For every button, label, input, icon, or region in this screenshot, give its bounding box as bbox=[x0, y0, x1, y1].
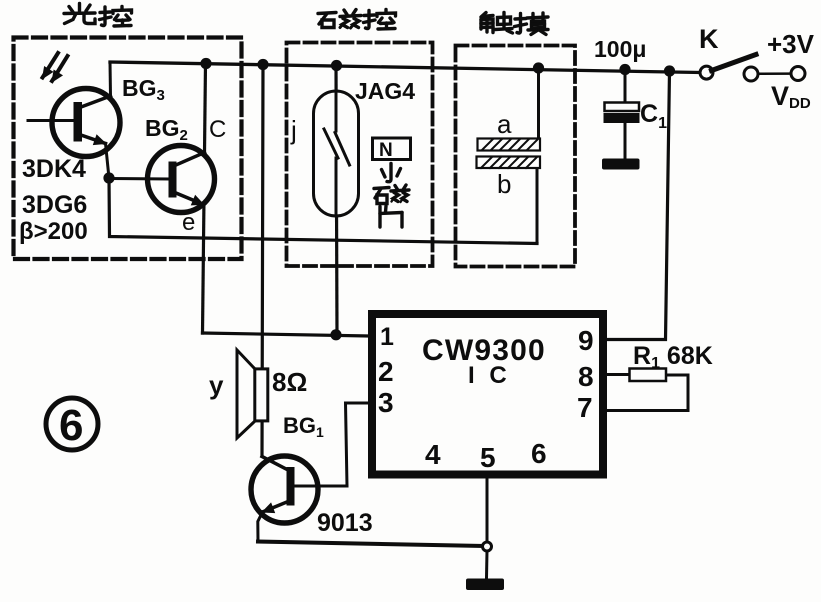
svg-text:9: 9 bbox=[578, 325, 594, 356]
label ci (magnet) bbox=[318, 10, 361, 29]
reed switch JAG4 capsule bbox=[314, 91, 359, 216]
wire reed switch branch from top rail down to pin1 node bbox=[336, 65, 337, 334]
svg-text:2: 2 bbox=[378, 356, 394, 387]
label kong (control) bbox=[100, 7, 132, 27]
svg-text:a: a bbox=[497, 109, 512, 139]
wire bottom rail (BG2 base node to touch plate b) bbox=[109, 178, 537, 244]
speaker y bbox=[237, 350, 268, 438]
svg-text:1: 1 bbox=[380, 323, 394, 351]
box magnetic-control dashed bbox=[287, 43, 433, 267]
wire C1 bottom lead to ground bbox=[624, 123, 627, 161]
touch plate a bbox=[478, 139, 541, 151]
label ci2 (magnet) bbox=[374, 185, 409, 204]
svg-text:+3V: +3V bbox=[767, 29, 815, 59]
svg-text:6: 6 bbox=[59, 401, 83, 450]
box light-control dashed bbox=[14, 38, 242, 260]
wire R1 to pin 7 bbox=[607, 375, 688, 411]
node dots on top rail bbox=[103, 58, 675, 341]
label xiao (small) bbox=[382, 164, 401, 182]
light arrows bbox=[43, 53, 68, 82]
svg-text:7: 7 bbox=[577, 392, 593, 423]
IC CW9300 box bbox=[372, 314, 603, 475]
transistor BG1 bbox=[251, 456, 347, 542]
figure number 6 circle bbox=[46, 398, 98, 450]
node pin1 junction bbox=[330, 329, 341, 340]
wire touch plate b down to bottom rail bbox=[536, 168, 539, 244]
svg-text:5: 5 bbox=[480, 442, 496, 473]
wire touch plate a feed bbox=[537, 68, 540, 139]
wire speaker branch from top rail down to BG1 collector bbox=[262, 64, 263, 456]
transistor BG2 bbox=[109, 146, 215, 213]
svg-text:3DK4: 3DK4 bbox=[22, 155, 86, 183]
svg-text:R1 68K: R1 68K bbox=[633, 342, 713, 372]
wire pin 8 lead bbox=[607, 373, 630, 376]
svg-text:e: e bbox=[182, 209, 195, 236]
ground main bbox=[466, 579, 504, 591]
ground under C1 bbox=[602, 159, 640, 170]
svg-text:8Ω: 8Ω bbox=[272, 367, 307, 397]
svg-text:j: j bbox=[290, 115, 297, 145]
label guang (light) bbox=[64, 4, 95, 24]
node BG2 base junction bbox=[103, 172, 114, 183]
label kong2 (control) bbox=[364, 10, 396, 30]
transistor BG3 bbox=[28, 62, 120, 178]
wire collector line C (BG2 collector to top rail down to pin1 rail) bbox=[203, 63, 206, 333]
touch plate b bbox=[477, 157, 541, 169]
capacitor C1 bbox=[604, 103, 640, 124]
svg-text:y: y bbox=[209, 370, 224, 400]
svg-text:b: b bbox=[497, 169, 511, 199]
wire pin 5 down bbox=[486, 480, 489, 542]
wire bottom ground rail bbox=[258, 542, 483, 547]
label chu (touch) bbox=[481, 13, 513, 34]
svg-text:3DG6: 3DG6 bbox=[22, 191, 87, 219]
svg-text:β>200: β>200 bbox=[19, 218, 88, 245]
resistor R1 body bbox=[630, 369, 667, 382]
svg-text:6: 6 bbox=[531, 438, 547, 469]
svg-text:9013: 9013 bbox=[317, 509, 373, 537]
box touch dashed bbox=[456, 46, 576, 267]
svg-text:3: 3 bbox=[378, 387, 394, 418]
N box small magnet bbox=[373, 138, 411, 160]
svg-text:100μ: 100μ bbox=[594, 36, 646, 62]
wire pin 9 to supply node bbox=[607, 71, 670, 340]
svg-text:4: 4 bbox=[425, 439, 441, 470]
label pian (piece) bbox=[380, 206, 402, 227]
svg-text:I C: I C bbox=[468, 362, 511, 389]
wire C1 top lead bbox=[624, 70, 627, 104]
svg-text:8: 8 bbox=[578, 361, 594, 392]
svg-text:N: N bbox=[379, 140, 393, 161]
switch K bbox=[700, 55, 805, 82]
node pin5 junction circle bbox=[483, 542, 492, 551]
wire top supply rail bbox=[110, 62, 699, 73]
label mo (touch2) bbox=[515, 13, 549, 35]
wire pin 1 rail bbox=[203, 333, 369, 336]
svg-text:C: C bbox=[209, 116, 226, 143]
svg-text:K: K bbox=[699, 24, 719, 54]
wire pin 3 to BG1 base bbox=[346, 403, 369, 486]
svg-text:JAG4: JAG4 bbox=[355, 78, 415, 104]
